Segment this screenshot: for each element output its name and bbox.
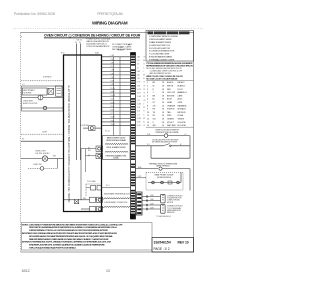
svg-text:13-V: 13-V [137, 100, 140, 102]
svg-text:PR: PR [143, 89, 145, 91]
svg-text:13: 13 [106, 269, 110, 273]
svg-text:3 BAKE ELEMENT 2500W: 3 BAKE ELEMENT 2500W [149, 41, 171, 44]
svg-text:14-BK: 14-BK [137, 103, 141, 105]
svg-text:ETRE REMPLACE PAR UN FIL DU ME: ETRE REMPLACE PAR UN FIL DU MEME CALIBRE… [29, 244, 105, 247]
svg-text:1 OVEN TEMP SENSOR / SONDE: 1 OVEN TEMP SENSOR / SONDE [149, 36, 178, 38]
svg-text:BOARD: BOARD [118, 48, 125, 51]
svg-text:ROJO: ROJO [178, 89, 184, 91]
svg-text:P1: P1 [128, 45, 130, 47]
svg-text:VIOLETA: VIOLETA [178, 121, 187, 124]
svg-text:13-V: 13-V [111, 99, 114, 101]
svg-text:DE VERROUILLAGE DE PORTE: DE VERROUILLAGE DE PORTE [152, 141, 178, 144]
svg-text:5: 5 [147, 95, 148, 97]
svg-text:2: 2 [147, 86, 148, 88]
svg-text:10/12: 10/12 [22, 269, 30, 273]
svg-text:AND IN STANDBY MODE: AND IN STANDBY MODE [150, 72, 172, 75]
svg-text:BR: BR [143, 75, 145, 77]
svg-text:4: 4 [147, 92, 148, 94]
svg-text:18: 18 [162, 92, 164, 94]
svg-text:4-Y: 4-Y [137, 67, 139, 69]
svg-text:P1-12: P1-12 [105, 131, 110, 133]
svg-text:DEBE SER REEMPLAZADO, DEBE USA: DEBE SER REEMPLAZADO, DEBE USARSE UN CAB… [29, 238, 109, 241]
svg-text:6-BL: 6-BL [137, 75, 140, 77]
svg-text:NARANJA: NARANJA [178, 104, 188, 107]
svg-text:12-GN: 12-GN [111, 95, 115, 97]
svg-text:BLACK: BLACK [167, 81, 174, 84]
svg-text:CORDON D'ALIMENTATION: CORDON D'ALIMENTATION [86, 45, 110, 48]
svg-text:BK: BK [143, 107, 145, 109]
svg-text:ATTENTION: TEMPERATURA. SI UN: ATTENTION: TEMPERATURA. SI UN FIL ORIGIN… [22, 241, 112, 244]
svg-text:BROIL ELEMENT 3400W: BROIL ELEMENT 3400W [107, 147, 126, 149]
svg-text:7: 7 [147, 102, 148, 104]
svg-text:PINK: PINK [167, 115, 172, 117]
svg-text:WITH A WIRE HAVING THE SAME TE: WITH A WIRE HAVING THE SAME TEMPERATURE … [29, 235, 114, 238]
svg-text:1-BK: 1-BK [137, 56, 140, 58]
svg-text:13: 13 [147, 122, 149, 124]
svg-text:WHT-RED: WHT-RED [167, 125, 176, 127]
svg-text:18: 18 [162, 82, 164, 84]
svg-text:COOL FAN: COOL FAN [87, 180, 96, 183]
svg-text:10-TN: 10-TN [137, 89, 141, 91]
svg-text:YELLOW: YELLOW [167, 92, 175, 94]
svg-text:16-R: 16-R [137, 111, 140, 113]
svg-text:120/240VAC 60HZ 3W+G: 120/240VAC 60HZ 3W+G [86, 43, 107, 46]
svg-text:ANTI-TIP BRKT: ANTI-TIP BRKT [24, 89, 36, 92]
svg-text:AZUL: AZUL [178, 98, 183, 101]
svg-text:240VAC: 240VAC [113, 157, 120, 160]
svg-text:TAN: TAN [167, 111, 171, 114]
svg-text:20-GY: 20-GY [137, 125, 141, 127]
svg-text:RED: RED [167, 89, 172, 91]
svg-text:AMARILLO: AMARILLO [178, 91, 188, 94]
svg-text:9 THERMAL LIMITER / LIMITE: 9 THERMAL LIMITER / LIMITE [149, 58, 175, 61]
svg-text:6 CONVECTION FAN MOTOR: 6 CONVECTION FAN MOTOR [149, 50, 175, 53]
svg-text:ROSA: ROSA [178, 114, 184, 117]
svg-text:4 OVEN LIGHT SW / LUZ: 4 OVEN LIGHT SW / LUZ [149, 45, 171, 47]
svg-text:R: R [143, 67, 144, 69]
svg-text:5 DOOR LATCH MOTOR: 5 DOOR LATCH MOTOR [149, 47, 170, 50]
svg-text:19-BL: 19-BL [137, 122, 141, 124]
svg-text:14-BK: 14-BK [111, 102, 115, 104]
svg-text:SW: SW [53, 155, 56, 157]
svg-text:POWER SUPPLY CORD 40A: POWER SUPPLY CORD 40A [86, 37, 111, 40]
svg-text:Y: Y [143, 71, 144, 73]
svg-text:15-W: 15-W [111, 106, 115, 108]
svg-text:17-Y: 17-Y [111, 113, 114, 115]
svg-text:NEGRO: NEGRO [178, 82, 185, 84]
svg-text:BL: BL [143, 122, 145, 124]
svg-text:11-PK: 11-PK [137, 93, 141, 95]
svg-text:OR: OR [143, 56, 145, 58]
svg-text:6: 6 [147, 99, 148, 101]
svg-text:316546154: 316546154 [154, 241, 171, 245]
svg-text:RESISTENCIA HORNEAR: RESISTENCIA HORNEAR [106, 139, 126, 142]
svg-text:LIGHT SW: LIGHT SW [33, 164, 42, 166]
svg-text:R: R [143, 114, 144, 116]
svg-text:EVENT DU FOUR: EVENT DU FOUR [23, 103, 38, 105]
svg-text:PURPLE: PURPLE [167, 109, 175, 111]
svg-text:NO CODE COLOR / COULEUR GAU: NO CODE COLOR / COULEUR GAUGE [146, 78, 178, 81]
svg-text:OVEN CIRCUIT ( ) CONEXION DE H: OVEN CIRCUIT ( ) CONEXION DE HORNO / CIR… [44, 34, 141, 38]
svg-text:PAGE : 1/ 2: PAGE : 1/ 2 [154, 247, 170, 251]
svg-text:WHITE: WHITE [167, 86, 174, 88]
svg-text:VIOLET: VIOLET [167, 122, 175, 124]
svg-text:2-W: 2-W [147, 134, 151, 136]
svg-text:INTERRUPTOR DE PUERTA: INTERRUPTOR DE PUERTA [156, 131, 180, 134]
svg-text:LIMITE TERMICO: LIMITE TERMICO [156, 166, 171, 168]
svg-text:P1-1: P1-1 [106, 185, 110, 187]
svg-text:(SOME MODELS): (SOME MODELS) [157, 177, 172, 179]
svg-text:18: 18 [162, 102, 164, 104]
svg-text:PUERTA CERRADA Y TODOS LOS CON: PUERTA CERRADA Y TODOS LOS CONTROLES APA… [29, 229, 109, 232]
svg-text:L1: L1 [185, 134, 187, 136]
svg-text:BL: BL [153, 99, 155, 101]
svg-text:W: W [153, 86, 155, 88]
svg-text:GN: GN [143, 100, 145, 102]
svg-text:11: 11 [147, 115, 149, 117]
svg-text:11-PK: 11-PK [111, 91, 115, 93]
svg-text:16: 16 [162, 115, 164, 117]
svg-text:P2: P2 [22, 139, 24, 141]
svg-text:PK: PK [143, 96, 145, 98]
svg-text:BROWN: BROWN [167, 95, 175, 97]
svg-text:10: 10 [147, 112, 149, 114]
svg-text:GRIS: GRIS [178, 102, 183, 104]
svg-text:BLC-RGE: BLC-RGE [178, 125, 187, 127]
svg-text:12: 12 [147, 119, 149, 121]
svg-text:BRONCE: BRONCE [178, 112, 187, 114]
svg-text:FPEF3077QFA-AB: FPEF3077QFA-AB [97, 12, 123, 16]
svg-text:17-Y: 17-Y [137, 114, 140, 116]
svg-text:12-GN: 12-GN [137, 96, 141, 98]
svg-text:7-GY: 7-GY [137, 78, 140, 80]
svg-text:Publication No: 59962-SGB: Publication No: 59962-SGB [14, 12, 56, 16]
svg-text:GY: GY [143, 82, 145, 84]
svg-text:10-TN: 10-TN [111, 88, 115, 90]
svg-text:19-BL: 19-BL [111, 120, 115, 122]
svg-text:CABLE DE ALIMENTACION: CABLE DE ALIMENTACION [86, 40, 109, 43]
svg-text:18: 18 [162, 95, 164, 97]
svg-text:VOIR LA PLAQUE SIGNALETIQUE PO: VOIR LA PLAQUE SIGNALETIQUE POUR PLUS DE… [29, 247, 77, 250]
svg-text:MORADO: MORADO [178, 108, 187, 111]
svg-text:ORANGE: ORANGE [167, 104, 176, 107]
svg-text:REPRESENTATION OF CIRCUITS / C: REPRESENTATION OF CIRCUITS / CIRCUITOS T… [146, 64, 193, 67]
svg-text:VERDE: VERDE [178, 119, 185, 121]
svg-text:REV 10: REV 10 [178, 241, 189, 245]
svg-text:BR: BR [143, 118, 145, 120]
svg-text:2 BROIL ELEMENT 3400W: 2 BROIL ELEMENT 3400W [149, 39, 172, 41]
svg-text:5-BR: 5-BR [137, 71, 140, 73]
svg-text:SOPORTE: SOPORTE [24, 93, 33, 95]
svg-text:LUZ DEL HORNO: LUZ DEL HORNO [35, 153, 50, 155]
svg-text:3-R: 3-R [137, 64, 139, 66]
svg-text:BLANCO: BLANCO [178, 85, 186, 88]
svg-text:LIGHT: LIGHT [42, 132, 48, 134]
svg-text:GRAY: GRAY [167, 101, 173, 104]
svg-text:SURFACE: SURFACE [43, 76, 52, 79]
svg-text:REFROID.: REFROID. [167, 212, 175, 214]
svg-text:14: 14 [162, 105, 164, 107]
svg-text:BK: BK [143, 60, 145, 62]
svg-text:DOOR SW: DOOR SW [80, 125, 89, 127]
svg-text:9-PR: 9-PR [137, 85, 140, 87]
svg-text:OR: OR [143, 85, 145, 87]
svg-text:CAFE: CAFE [178, 94, 184, 97]
svg-text:NOTES: 1. DISCONNECT POWER BE: NOTES: 1. DISCONNECT POWER BEFORE SERVIC… [22, 223, 123, 226]
svg-text:IMPORTANT: IF ANY ORIGINAL WI: IMPORTANT: IF ANY ORIGINAL WIRE AS SUPPL… [22, 232, 118, 235]
svg-text:1: 1 [147, 82, 148, 84]
svg-text:9: 9 [147, 109, 148, 111]
svg-text:16: 16 [162, 89, 164, 91]
svg-text:18: 18 [162, 109, 164, 111]
svg-text:18: 18 [162, 86, 164, 88]
svg-text:ELECTRONIC OVEN CONTROL BOARD: ELECTRONIC OVEN CONTROL BOARD / TABLERO … [67, 86, 70, 203]
svg-text:V: V [143, 103, 144, 105]
svg-text:4-Y: 4-Y [111, 66, 113, 68]
svg-text:CONV ELEMENT / CONVECCION: CONV ELEMENT / CONVECCION [104, 202, 128, 204]
svg-text:WIRING DIAGRAM: WIRING DIAGRAM [92, 20, 128, 25]
svg-text:3: 3 [147, 89, 148, 91]
svg-text:7 COOLING FAN / VENT.: 7 COOLING FAN / VENT. [149, 53, 170, 56]
svg-text:14: 14 [162, 125, 164, 127]
svg-text:18-BR: 18-BR [137, 118, 141, 120]
svg-text:GY: GY [143, 125, 145, 127]
svg-text:18: 18 [162, 119, 164, 121]
svg-text:14: 14 [147, 125, 149, 127]
svg-text:20-GY: 20-GY [111, 124, 115, 126]
svg-text:HIDDEN BAKE / RESISTENCIA OCUL: HIDDEN BAKE / RESISTENCIA OCULTA [104, 193, 132, 196]
svg-text:8 HIDDEN BAKE ELEMENT: 8 HIDDEN BAKE ELEMENT [149, 56, 173, 59]
svg-text:8-OR: 8-OR [137, 82, 140, 84]
svg-text:8: 8 [147, 105, 148, 107]
svg-text:GREEN: GREEN [167, 119, 174, 121]
svg-text:MDL: MDL [83, 198, 86, 200]
svg-text:DESCONECTE LA ENERGIA ANTES DE: DESCONECTE LA ENERGIA ANTES DE DAR SERVI… [29, 226, 117, 229]
svg-text:L1: L1 [75, 42, 77, 44]
svg-text:CN 1 2: CN 1 2 [77, 39, 83, 41]
svg-text:BLUE: BLUE [167, 99, 173, 101]
svg-text:18: 18 [162, 122, 164, 124]
svg-text:TN: TN [143, 93, 145, 95]
svg-text:BL: BL [143, 78, 145, 80]
svg-text:MOTOR: MOTOR [167, 202, 174, 204]
svg-text:16: 16 [162, 99, 164, 101]
svg-text:18: 18 [162, 112, 164, 114]
svg-text:6-BL: 6-BL [138, 167, 142, 169]
